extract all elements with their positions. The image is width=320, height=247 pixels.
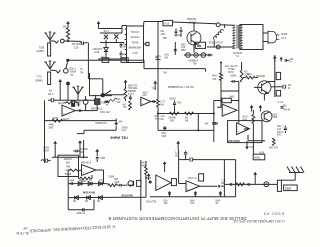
label R11 M905 (81, 181, 87, 183)
capacitor C24 (281, 85, 286, 89)
ground arrow down-left (114, 119, 118, 126)
svg-text:MA05: MA05 (170, 97, 177, 100)
left rail vertical (44, 100, 46, 163)
svg-text:M1.0: M1.0 (48, 93, 54, 96)
svg-text:YM05: YM05 (43, 148, 50, 150)
resistor R1 (input shunt, vertical box) (48, 43, 51, 56)
capacitor C29 vertical (173, 101, 176, 114)
capacitor C4 vertical (175, 29, 178, 37)
capacitor C28 (248, 183, 249, 186)
svg-text:BM8B5571A = A5-7M: BM8B5571A = A5-7M (168, 85, 195, 89)
small box on ladder (137, 180, 141, 186)
svg-text:(7M16): (7M16) (189, 21, 197, 24)
input jack J2 antenna symbol (44, 61, 55, 69)
resistor R3 box on bus (163, 20, 173, 25)
svg-text:4M6: 4M6 (123, 46, 128, 49)
boxed label 2020 (284, 185, 298, 191)
attack chain wire y113 (158, 113, 214, 115)
right bias vertical (83, 140, 85, 158)
input resistor R25 U4A (68, 169, 81, 184)
svg-text:M48: M48 (162, 136, 167, 138)
label M4A 748 (190, 199, 195, 205)
junction dot D (66, 82, 70, 101)
wire node A to C1 (64, 40, 80, 42)
label M2 1A8 (161, 30, 166, 36)
resistor R20 vertical (240, 62, 243, 82)
label MR TYM (155, 116, 160, 121)
power arrow tone (124, 80, 128, 89)
svg-text:A15: A15 (277, 128, 282, 131)
label M81 1A2.M (101, 111, 111, 114)
jack row wire (184, 54, 207, 56)
label 2N1A77M (146, 201, 156, 204)
label 7.1A M9 (221, 179, 226, 185)
svg-text:A15: A15 (244, 71, 249, 74)
power arrow above R2 (66, 21, 70, 28)
svg-text:1A9: 1A9 (181, 46, 186, 49)
label M05M1A 78A (189, 59, 199, 65)
label Q2 M42M48 (256, 76, 266, 78)
diode D1 cross pair (104, 33, 108, 43)
svg-text:100M: 100M (43, 151, 49, 153)
signal bus2 wire (68, 59, 144, 61)
label col M42 A15 (277, 126, 284, 136)
resistor R5 box on bus2 (121, 58, 128, 63)
label C14 (101, 158, 106, 160)
bottom return wire (207, 46, 234, 48)
diode D9 (85, 196, 90, 203)
label M5.1 A15 (63, 118, 70, 121)
node A open circle (60, 39, 64, 43)
diode D10 (97, 196, 102, 203)
svg-text:TW16: TW16 (131, 40, 139, 44)
label YA1 (152, 87, 157, 90)
label M25 A15 (143, 93, 149, 98)
wire rail branch down (100, 29, 122, 34)
svg-text:7M3: 7M3 (170, 120, 175, 122)
power arrow mid-left (58, 79, 62, 100)
label R1 value 1SB 2A5M (37, 46, 45, 54)
svg-text:(M)1A: (M)1A (277, 131, 284, 134)
wire T1 to plug lower (263, 41, 268, 43)
label M41 874 (269, 147, 279, 149)
svg-text:M: M (290, 62, 292, 64)
capacitor C1 (80, 41, 87, 45)
wire R2 to node A junction (67, 39, 69, 42)
label M1A5 M18 (243, 117, 249, 122)
capacitor C22 marks (216, 122, 217, 125)
resistor R4 box on bus2 (102, 58, 109, 63)
label C8 M40 848 (76, 102, 81, 107)
svg-text:T0UA7: T0UA7 (131, 30, 140, 34)
label Q1 BM16M (187, 17, 197, 24)
power arrow x281 (280, 57, 283, 62)
wire y95 branch (90, 73, 113, 96)
svg-text:4S.1: 4S.1 (104, 29, 110, 33)
svg-text:M4B: M4B (115, 182, 120, 184)
diode D8 (73, 196, 78, 203)
label MA05 A1M (58, 102, 65, 105)
label MA TVA (123, 103, 128, 109)
svg-text:A7M90: A7M90 (81, 148, 89, 151)
capacitor C19 on wire (179, 158, 236, 162)
label 85A.1 A05M (70, 67, 77, 76)
switch S1 contact check (55, 40, 59, 43)
label YM05 100M (43, 148, 50, 153)
transformer T1 primary winding (232, 25, 235, 49)
resistor R2 zigzag to V+ (66, 28, 69, 40)
svg-text:2A5M: 2A5M (37, 49, 45, 53)
resistor R8 vertical (129, 101, 132, 110)
ground arrow right of U3 (95, 149, 99, 155)
attach pot rect U5 (171, 179, 176, 186)
svg-text:M38: M38 (245, 74, 250, 76)
jack ring terminal 1 (186, 53, 191, 58)
svg-text:A4M1: A4M1 (49, 124, 56, 127)
label 47.05M 125 (72, 42, 81, 49)
label 8A5M8 7M3 (169, 116, 177, 122)
label MA05 7M3 (170, 97, 182, 104)
bottom rail wire (98, 58, 127, 60)
tolerance note line (168, 85, 195, 89)
chassis arrow symbol (72, 86, 83, 100)
svg-text:M18: M18 (95, 51, 100, 54)
capacitor C12 between stems (74, 150, 81, 153)
svg-text:M95M 878: M95M 878 (96, 123, 108, 125)
label A5 M1.0 (48, 90, 54, 96)
capacitor C17 on loop (83, 208, 85, 211)
label 4S.1 (104, 29, 110, 33)
hatch box component (95, 95, 100, 104)
Q2 emitter down (263, 94, 265, 101)
capacitor C27 (230, 183, 231, 186)
IC U3 bias generator box (58, 155, 79, 176)
label Q3 M05 7M8 (273, 114, 278, 119)
svg-text:M0ST A1.8: M0ST A1.8 (91, 108, 103, 111)
vertical wire x175 (174, 42, 177, 55)
label M41 M48 (162, 133, 167, 138)
wire U1 top to supply bus (144, 22, 164, 27)
label 507M 678 (212, 75, 217, 81)
pot tick 2 (194, 191, 197, 197)
wire bus to output jack (173, 22, 217, 25)
capacitor C18 vertical (184, 151, 187, 160)
svg-text:M051: M051 (254, 157, 260, 159)
trim pot TP1 circle (83, 96, 88, 111)
inductor L1 diagonal coil (213, 30, 223, 40)
label A.M M9 (161, 115, 165, 121)
diode D4 (78, 180, 83, 186)
bold label MV1A548 right (122, 194, 134, 198)
resistor R14 vertical (220, 62, 223, 101)
wire bus2 corner down (144, 60, 206, 71)
svg-text:7.1A: 7.1A (221, 179, 226, 182)
svg-text:YA1: YA1 (152, 87, 157, 90)
label 50A 128 (164, 199, 169, 205)
svg-text:7M8: 7M8 (114, 179, 119, 181)
capacitor C2 (120, 42, 128, 48)
jack row wire right (205, 54, 212, 57)
bias rail wire y157 (52, 156, 88, 158)
svg-text:(7M9): (7M9) (122, 127, 128, 129)
svg-text:125: 125 (74, 45, 79, 49)
label M09Y (53, 117, 60, 120)
svg-text:M91: M91 (66, 163, 71, 165)
svg-text:50A: 50A (164, 199, 169, 202)
loop wires opamp A (214, 91, 239, 123)
label A4M1 5M9 (49, 124, 56, 130)
resistor R22 (236, 183, 245, 186)
svg-text:MA: MA (123, 103, 127, 106)
capacitor C10 (105, 100, 110, 103)
sheet number rotated (263, 211, 284, 215)
op-amp U7 triangle (222, 104, 237, 116)
svg-text:4.15: 4.15 (164, 22, 170, 26)
label A91 M (290, 58, 295, 64)
svg-text:L9 TV: L9 TV (155, 56, 162, 58)
svg-text:A45-M: A45-M (283, 109, 290, 112)
bold label MV1A5 bottom (229, 140, 241, 143)
svg-text:7775M: 7775M (228, 69, 235, 71)
svg-text:M98 M1.8: M98 M1.8 (81, 162, 92, 164)
svg-text:8M6M58H: 8M6M58H (129, 46, 141, 50)
label R2 1M (63, 25, 68, 29)
svg-text:7M8: 7M8 (273, 117, 278, 119)
svg-text:M41: M41 (162, 133, 167, 135)
mix wire y130 (158, 129, 214, 131)
resistor R13 vertical (145, 161, 148, 197)
svg-text:78A: 78A (163, 71, 168, 74)
wire U2B output caps (151, 100, 157, 103)
bottom bus y196 (150, 196, 236, 198)
diode D5 (88, 180, 93, 186)
svg-text:M4A: M4A (212, 75, 217, 78)
svg-text:C16: C16 (133, 51, 138, 55)
svg-text:5EM0: 5EM0 (36, 78, 44, 82)
wire Q1 emitter down (193, 45, 195, 53)
svg-text:MA: MA (119, 120, 123, 123)
svg-text:M1.5: M1.5 (243, 117, 249, 119)
wire rail up to U1 pin (122, 26, 127, 29)
svg-text:Z0Z0: Z0Z0 (285, 186, 292, 190)
svg-text:A4M: A4M (70, 179, 75, 182)
label M91 1A9 M8P (181, 44, 186, 52)
svg-text:1A8: 1A8 (161, 33, 166, 36)
svg-text:MV1A548: MV1A548 (83, 191, 95, 195)
svg-text:M4A: M4A (190, 199, 195, 202)
svg-text:M18: M18 (260, 152, 265, 154)
svg-text:2N1A77M: 2N1A77M (146, 201, 156, 204)
label block MOSTYN TOM A8A M98M8 (128, 85, 138, 95)
label A01 M9 (165, 54, 170, 60)
label MMt (119, 120, 123, 123)
op-amp U6 triangle (186, 181, 200, 192)
junction dot on bus2 (66, 59, 69, 62)
output jack circle bottom (216, 45, 220, 49)
pot tick 1 (168, 191, 171, 197)
svg-text:M98M8: M98M8 (128, 91, 136, 93)
wire supply rail (99, 28, 123, 30)
resistor box R18 (276, 90, 280, 96)
svg-text:4YPY: 4YPY (128, 94, 134, 96)
sustain vertical x141 (140, 160, 142, 211)
svg-text:A15: A15 (212, 78, 217, 81)
capacitor C15 ladder (70, 179, 75, 185)
bypass node circle (101, 93, 105, 97)
rev note rotated (16, 226, 28, 235)
capacitor C26 (244, 128, 250, 131)
svg-text:7A: 7A (236, 55, 239, 58)
chassis ground hatch (281, 167, 304, 181)
op-amp U2A triangle (62, 105, 75, 116)
label (7M9) C4A (122, 127, 128, 132)
ground arrow shaper (78, 140, 82, 157)
svg-text:5A: 5A (216, 202, 219, 205)
wire U4A out down to ladder (96, 170, 104, 184)
svg-text:MV1A548: MV1A548 (229, 140, 241, 143)
svg-text:TVA: TVA (123, 106, 128, 109)
diode D6 (99, 180, 103, 186)
node B open circle (64, 69, 69, 74)
switch arm S3 (105, 90, 111, 94)
part number rotated (233, 219, 284, 223)
wire node to tone resistor (105, 94, 124, 96)
label M terminal (198, 44, 200, 48)
switch S2 check (56, 70, 61, 73)
svg-text:7A8: 7A8 (190, 202, 195, 205)
label 51M8 7M8 (109, 177, 119, 182)
ladder bottom loop (68, 200, 94, 210)
svg-text:A15: A15 (143, 94, 148, 97)
wire L1 top to bus (224, 24, 226, 28)
label L9 TV (155, 56, 168, 74)
label A.2 M1 (175, 152, 179, 158)
wire opamp U2A output (75, 110, 93, 112)
svg-text:8A5M8: 8A5M8 (169, 116, 177, 119)
label COMART M18 (93, 48, 103, 54)
capacitor C3 (120, 51, 128, 59)
svg-text:MA0571: MA0571 (64, 158, 73, 161)
output jack circle (264, 182, 269, 187)
feedback rect U6 (199, 174, 204, 181)
svg-text:M405: M405 (281, 33, 288, 36)
svg-text:M: M (288, 88, 290, 90)
label 77 (106, 104, 109, 107)
title block text rotated (108, 216, 246, 221)
svg-text:M05: M05 (273, 114, 278, 116)
power arrow V+ at supply filter (97, 21, 101, 29)
wire node B up to bus2 (66, 62, 68, 69)
label column A(1) (225, 65, 238, 74)
long vertical feed wire (157, 22, 159, 57)
label 75 7M (80, 69, 83, 74)
svg-text:50A: 50A (117, 98, 122, 101)
svg-text:M8P: M8P (181, 50, 186, 52)
wire bus to transformer top (220, 24, 233, 26)
resistor R6 connection (93, 104, 97, 110)
svg-text:5HPM T5U: 5HPM T5U (111, 136, 129, 140)
capacitor C8 electrolytic box (72, 100, 75, 106)
diode D2 cross pair (114, 33, 118, 43)
chain drop vertical (197, 114, 199, 132)
ladder left vertical (67, 184, 69, 205)
vertical x224 (223, 160, 225, 197)
wire U6 out (200, 185, 225, 188)
feedback resistor R7 (64, 102, 79, 107)
svg-text:7A7M: 7A7M (228, 71, 234, 74)
feedback resistor R11 (79, 171, 93, 180)
resistor R26 vertical (124, 89, 127, 102)
ground arrow mid (163, 161, 167, 172)
bold label MV1A548 left (83, 191, 95, 195)
ground arrow pair 1 (250, 105, 254, 112)
svg-text:M81 1A2: M81 1A2 (101, 111, 111, 114)
svg-text:M1A8: M1A8 (145, 177, 152, 180)
power arrow x275 (273, 56, 277, 63)
label M9B M4 (115, 182, 120, 184)
wire y91 (221, 90, 239, 92)
input jack J1 antenna symbol (44, 32, 55, 40)
wire J2 to switch S2 (50, 69, 56, 72)
label A4M170 (77, 212, 86, 215)
jack ring terminal 3 (201, 53, 206, 58)
svg-text:DELUXE BIG MUFF PI DISTORTION: DELUXE BIG MUFF PI DISTORTION/COMPRESSOR… (108, 216, 246, 221)
label 1A5M-A (174, 34, 180, 37)
power arrow U2B (153, 81, 157, 90)
svg-text:M0STYN: M0STYN (128, 85, 138, 87)
label 50A 549 (117, 98, 122, 104)
wire L1 bottom (213, 40, 215, 47)
jack ring terminal 2 (194, 53, 198, 57)
svg-text:A1.5: A1.5 (281, 37, 287, 40)
wire C1 down then left rail (88, 43, 102, 93)
label 505M (231, 76, 237, 78)
output row wire (225, 183, 278, 185)
mid cap stem (178, 150, 180, 160)
vertical x235 (235, 160, 237, 197)
svg-text:M7A 1.8: M7A 1.8 (188, 177, 197, 180)
handwritten note squiggle (105, 98, 117, 103)
resistor R19 (243, 74, 258, 79)
svg-text:LI 09J 1MP1(M81.88-011 1P9 J11: LI 09J 1MP1(M81.88-011 1P9 J11 (233, 219, 284, 223)
label A15M (101, 101, 107, 104)
label A2? M9 (161, 101, 166, 107)
label MOST A1.8 (91, 108, 103, 111)
label A47 M98 (142, 162, 147, 168)
shaper wire path (77, 126, 116, 134)
wire Q1 collector up (193, 22, 195, 31)
label M1A8 (145, 177, 152, 180)
preamp rail wire y100 (57, 99, 100, 101)
capacitor C5 vertical (180, 27, 183, 37)
label 78P (163, 37, 168, 40)
label A7M90 M3 (81, 148, 89, 154)
svg-text:M50: M50 (101, 158, 106, 160)
label M4A 54 (216, 199, 221, 205)
svg-text:M09Y: M09Y (53, 117, 60, 120)
label A41 (101, 56, 106, 59)
resistor R12 (108, 184, 118, 187)
svg-text:A.77: A.77 (161, 101, 166, 104)
footswitch body FS1 (48, 72, 51, 85)
Q2 base wire (254, 82, 281, 88)
ladder lower rail (68, 196, 146, 198)
IC U1 power amp box (125, 26, 144, 63)
capacitor C6 on feed wire (156, 56, 161, 73)
transistor Q1 circle (187, 31, 201, 45)
pot tick 3 (219, 191, 222, 197)
transistor Q3 circle (261, 111, 272, 122)
